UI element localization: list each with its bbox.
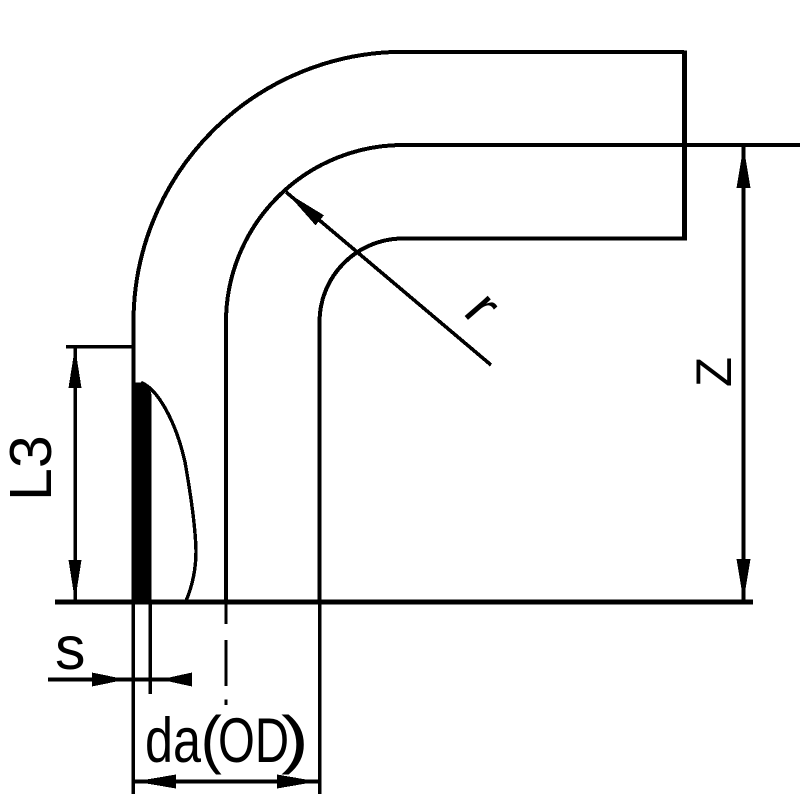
wall section fill (cut wall, black) (132, 382, 152, 601)
pipe middle line (bend axis) (226, 145, 800, 601)
svg-text:Z: Z (686, 357, 742, 387)
bore curve (inner surface of bend) (141, 383, 196, 602)
pipe outer wall (left/top) (134, 52, 685, 601)
r leader line (286, 192, 491, 365)
svg-text:s: s (55, 614, 86, 682)
L3 dimension line (73, 347, 77, 601)
pipe inner wall (right/bottom) (320, 239, 685, 602)
Z arrow down (737, 559, 751, 601)
svg-text:L3: L3 (0, 435, 64, 501)
s arrow pointing left (right side) (160, 673, 192, 687)
s dimension line (48, 678, 192, 682)
da(OD) dimension line (133, 780, 320, 784)
centerline (dash-dot below baseline) (224, 601, 227, 624)
L3 extension line (top) (66, 345, 133, 349)
pipe end cap (right) (682, 51, 687, 241)
s extension line (inner wall, below baseline) (148, 601, 152, 694)
baseline (bottom end face) (55, 600, 753, 605)
s arrow pointing right (left side) (92, 673, 126, 687)
L3 arrow down (69, 560, 82, 601)
da(OD) extension line left (131, 601, 135, 794)
Z arrow up (737, 146, 751, 188)
da(OD) arrow right (277, 775, 318, 789)
svg-text:OD: OD (218, 706, 289, 776)
svg-text:da: da (145, 706, 202, 776)
svg-text:): ) (281, 703, 309, 775)
da(OD) arrow left (135, 775, 176, 789)
Z dimension line (742, 146, 746, 601)
da(OD) extension line right (318, 601, 322, 794)
L3 arrow up (69, 347, 82, 388)
r arrowhead (286, 192, 324, 225)
